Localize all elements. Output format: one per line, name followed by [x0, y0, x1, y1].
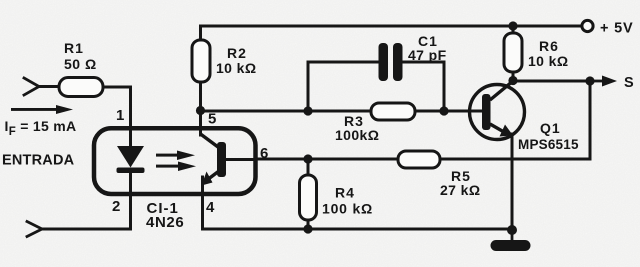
wire: R2 bottom lead to node 5 — [199, 82, 202, 110]
ground — [491, 230, 531, 251]
wire: Q1 emitter down to ground rail — [511, 134, 514, 229]
wire: bottom ground rail from pin 4 to ground node — [203, 228, 513, 231]
wire: pin 2 lead and bottom input wire — [42, 195, 131, 229]
resistor R4 — [300, 159, 317, 229]
svg-text:ENTRADA: ENTRADA — [2, 153, 75, 169]
+5V supply terminal — [582, 20, 593, 31]
LED cathode lead (pin 2 internal) — [129, 173, 132, 195]
svg-text:4: 4 — [206, 199, 215, 216]
junction: collector node — [508, 76, 517, 85]
wire: pin 5 lead from node 5 into box — [199, 110, 202, 135]
svg-text:10 kΩ: 10 kΩ — [216, 60, 256, 76]
wire: R3 right lead to Q1 base node — [414, 110, 444, 113]
LED of CI-1 — [117, 146, 145, 173]
resistor R6 — [504, 26, 522, 80]
wire: R1 right to pin 1 — [103, 87, 131, 127]
light arrow lower — [156, 162, 196, 172]
LED anode lead (pin 1 internal) — [129, 126, 132, 147]
svg-text:2: 2 — [112, 198, 120, 215]
svg-text:R4: R4 — [335, 185, 355, 201]
wire: C1 left branch riser — [308, 62, 379, 111]
wire: Q1 base — [444, 110, 483, 113]
wire: pin 4 lead down from emitter arrow — [201, 177, 204, 229]
current arrow IF — [11, 105, 73, 114]
junction: Q1 base node — [439, 106, 448, 115]
junction: S output node — [585, 76, 594, 85]
svg-text:R2: R2 — [227, 45, 247, 61]
svg-text:1: 1 — [116, 107, 124, 124]
light arrow upper — [156, 151, 195, 161]
svg-text:R1: R1 — [64, 40, 84, 56]
junction: R4 top — [303, 154, 312, 163]
svg-text:R6: R6 — [539, 38, 559, 54]
svg-text:6: 6 — [260, 145, 268, 162]
wire: +5V top rail from R2 top to supply terminal — [201, 26, 583, 40]
output S arrow — [594, 76, 617, 87]
wire: R5 left to pin 6 of optocoupler — [256, 158, 398, 161]
svg-text:MPS6515: MPS6515 — [518, 137, 579, 152]
wire: S node feedback down and left to R5 — [440, 81, 590, 159]
optocoupler CI-1 body — [94, 128, 256, 194]
wire: node 5 across to R3 left — [201, 110, 373, 113]
wire: R6 collector node to output S node — [513, 80, 590, 83]
resistor R3 — [371, 103, 415, 120]
capacitor C1 — [379, 43, 403, 81]
junction: C1 left tap on R3 wire — [303, 106, 312, 115]
phototransistor of CI-1 — [201, 134, 257, 186]
transistor Q1 — [470, 81, 525, 140]
svg-text:50 Ω: 50 Ω — [64, 56, 97, 72]
svg-text:100 kΩ: 100 kΩ — [322, 201, 373, 217]
svg-text:Q1: Q1 — [540, 120, 561, 136]
svg-text:27 kΩ: 27 kΩ — [440, 182, 480, 198]
svg-text:+ 5V: + 5V — [600, 21, 633, 37]
svg-text:S: S — [624, 75, 634, 91]
svg-text:5: 5 — [208, 111, 216, 128]
junction: R6 top on rail — [508, 21, 517, 30]
resistor R1 — [59, 78, 103, 97]
svg-text:10 kΩ: 10 kΩ — [528, 53, 568, 69]
wire: C1 right branch down to base node — [402, 62, 444, 111]
resistor R2 — [192, 40, 210, 82]
junction: R4 bottom — [303, 224, 312, 233]
svg-text:4N26: 4N26 — [146, 214, 184, 231]
wire: input top to R1 — [39, 85, 59, 88]
svg-text:100kΩ: 100kΩ — [335, 127, 379, 143]
input chevron top — [24, 78, 39, 95]
resistor R5 — [398, 151, 440, 168]
junction: node 5 — [196, 106, 205, 115]
input chevron bottom — [27, 222, 42, 237]
svg-text:47 pF: 47 pF — [408, 47, 447, 63]
junction: ground node — [507, 225, 517, 235]
